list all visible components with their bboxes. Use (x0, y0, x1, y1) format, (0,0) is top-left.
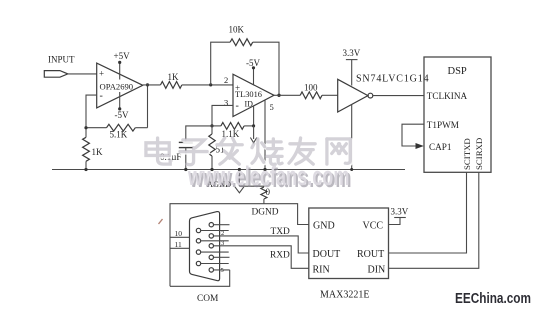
arrow into CAP1 (416, 143, 424, 149)
wire to inverter input (322, 94, 338, 96)
wire 10 (170, 236, 190, 238)
resistor 1K series (161, 82, 182, 89)
power 3.3V of U3 (351, 60, 353, 86)
power +5V port of U1 (119, 63, 121, 80)
wire T1PWM to CAP1 loop (402, 124, 424, 146)
pin circle r5 (209, 268, 213, 272)
wire U1 inverting input to feedback node (86, 95, 97, 128)
svg-text:GND: GND (313, 221, 335, 232)
wire ROUT to DSP SCITXD (389, 172, 467, 253)
mark red tick (159, 219, 163, 224)
wire DGND net top (170, 204, 309, 287)
wire pin stub (201, 240, 229, 242)
svg-text:-5V: -5V (246, 58, 260, 68)
node feedback/output junction (146, 83, 149, 86)
pin circle r1 (209, 223, 213, 227)
resistor 0 AGND-DGND bridge (239, 185, 264, 187)
svg-text:3: 3 (224, 98, 228, 108)
wire U1 output (143, 84, 161, 86)
wire comparator pin 3 (212, 105, 233, 126)
port INPUT tag (44, 71, 68, 78)
svg-text:5: 5 (221, 267, 224, 274)
svg-text:+: + (235, 83, 240, 93)
wire to capacitor (186, 126, 212, 142)
wire AGND rail (52, 169, 405, 171)
connector J1 COM DB9 body (190, 212, 220, 281)
svg-text:1K: 1K (168, 72, 180, 82)
svg-text:DGND: DGND (252, 208, 279, 218)
svg-text:5.1K: 5.1K (110, 130, 128, 140)
wire 1.1K right to ID pin (253, 106, 255, 126)
power -5V port of U1 (119, 92, 121, 109)
wire 11 (170, 247, 190, 249)
wire 10K loop right (253, 42, 279, 95)
svg-text:INPUT: INPUT (48, 55, 75, 65)
wire comparator output (274, 94, 300, 96)
wire feedback up to output node (147, 85, 149, 128)
node 1K on rail (84, 168, 87, 171)
resistor 100 (300, 92, 322, 99)
svg-text:2: 2 (221, 230, 224, 237)
svg-text:3.3V: 3.3V (343, 48, 361, 58)
wire RXD from pin (214, 246, 309, 268)
wire input to op-amp + (68, 73, 97, 75)
svg-text:+5V: +5V (114, 51, 131, 61)
wire inverter output to DSP (373, 95, 424, 97)
node pin5 on rail (263, 168, 266, 171)
comparator U2 TL3016 (233, 74, 274, 116)
block MAX3221E (309, 208, 389, 279)
capacitor C1 0.1uF (179, 141, 193, 143)
power 3.3V of MAX3221E (389, 218, 401, 225)
svg-text:11: 11 (175, 240, 182, 249)
pin circle r2 (209, 234, 213, 238)
svg-text:2: 2 (224, 75, 228, 85)
pin circle r4 (209, 255, 213, 259)
svg-text:COM: COM (197, 294, 219, 304)
svg-text:-: - (100, 91, 103, 102)
svg-text:SN74LVC1G14: SN74LVC1G14 (356, 74, 429, 85)
resistor 51 to rail (211, 126, 213, 134)
svg-text:3: 3 (221, 240, 224, 247)
node pin3/cap/1.1K/51 junction (210, 124, 213, 127)
wire COM shield bottom (170, 270, 230, 286)
svg-text:TCLKINA: TCLKINA (427, 91, 468, 101)
svg-text:CAP1: CAP1 (429, 142, 452, 152)
svg-text:3.3V: 3.3V (391, 207, 409, 217)
wire pin stub (201, 230, 229, 232)
wire pin5 to shield (214, 269, 230, 271)
svg-text:10: 10 (175, 229, 183, 238)
ground AGND symbol (238, 170, 240, 187)
svg-text:-5V: -5V (115, 110, 129, 120)
svg-text:OPA2690: OPA2690 (100, 82, 134, 92)
wire DIN to DSP SCIRXD (389, 172, 479, 268)
svg-text:ID: ID (245, 100, 254, 109)
svg-text:5: 5 (270, 102, 274, 112)
wire comparator pin 5 to rail (264, 101, 266, 170)
wire pin stub (214, 256, 230, 258)
resistor 5.1K feedback (86, 127, 107, 129)
svg-text:-: - (236, 101, 239, 112)
node 1.1K right junction (252, 124, 255, 127)
svg-text:www.elecfans.com: www.elecfans.com (187, 161, 349, 191)
watermark CJK big text (146, 138, 351, 166)
svg-text:EEChina.com: EEChina.com (455, 291, 531, 307)
op-amp U1 OPA2690 (97, 63, 143, 108)
node 5.1K/1K junction (84, 126, 87, 129)
wire pin stub (201, 251, 229, 253)
svg-text:RXD: RXD (270, 251, 290, 261)
svg-text:MAX3221E: MAX3221E (320, 290, 369, 301)
pin circle l2 (196, 239, 200, 243)
resistor 10K (230, 39, 253, 46)
svg-text:RIN: RIN (313, 265, 330, 276)
arrow to -5V from 1.1K node (253, 126, 255, 139)
pin circle l1 (196, 228, 200, 232)
wire TXD from pin (214, 236, 309, 253)
resistor 1.1K (212, 125, 221, 127)
wire inverter ground to rail (351, 105, 353, 170)
pin circle r3 (209, 244, 213, 248)
block DSP (424, 57, 491, 172)
svg-text:DSP: DSP (448, 66, 467, 77)
node 10K loop tap (209, 83, 212, 86)
svg-text:+: + (99, 69, 104, 79)
wire 10K loop left (211, 42, 230, 85)
svg-text:SCITXD: SCITXD (462, 138, 472, 170)
node cap on rail (184, 168, 187, 171)
svg-text:TXD: TXD (271, 227, 290, 237)
svg-text:ROUT: ROUT (357, 249, 384, 260)
node comparator output (277, 94, 280, 97)
wire pin stub (214, 224, 230, 226)
pin circle l4 (196, 261, 200, 265)
svg-text:1K: 1K (92, 147, 104, 157)
wire to comparator pin 2 (182, 84, 233, 86)
inverter U3 SN74LVC1G14 (338, 79, 368, 112)
svg-text:T1PWM: T1PWM (427, 120, 459, 130)
power -5V port of U2 (253, 68, 255, 84)
svg-text:DOUT: DOUT (313, 249, 341, 260)
node 51 on rail (210, 168, 213, 171)
wire pin stub (201, 263, 229, 265)
pin circle l3 (196, 250, 200, 254)
svg-text:10K: 10K (229, 25, 245, 35)
svg-text:VCC: VCC (363, 221, 384, 232)
svg-text:100: 100 (304, 83, 318, 93)
resistor 1K to analog ground (85, 128, 87, 138)
svg-text:SCIRXD: SCIRXD (474, 138, 484, 170)
svg-text:DIN: DIN (368, 265, 386, 276)
